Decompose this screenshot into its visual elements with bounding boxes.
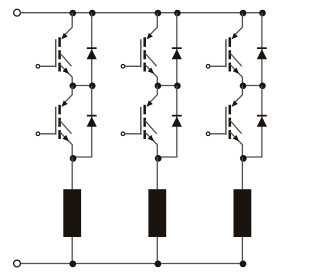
junction: top bus / Q3 collector: [155, 10, 162, 17]
igbt Q5 collector arrowhead: [232, 33, 238, 40]
igbt Q1 emitter arrowhead: [63, 68, 69, 74]
junction: top bus / diode D1 cathode: [89, 10, 96, 17]
diode D4 (freewheeling, cathode up): [172, 115, 182, 127]
wire: lower node to resistor R3: [241, 157, 243, 189]
junction: top bus / diode D3 cathode: [174, 10, 181, 17]
wire: resistor R2 to bottom bus: [156, 237, 158, 264]
igbt Q5 collector wire: [233, 13, 242, 37]
wire: diode D3 branch: [176, 13, 178, 86]
igbt Q5 gate terminal circle: [206, 65, 210, 69]
igbt Q4 emitter wire: [145, 132, 157, 157]
wire: phase B midpoint link: [157, 85, 177, 87]
junction: leg C lower node: [240, 155, 247, 162]
igbt Q3 gate terminal circle: [121, 65, 125, 69]
igbt Q4 emitter arrowhead: [148, 135, 154, 141]
junction: leg B lower node: [155, 155, 162, 162]
igbt Q4 collector arrowhead: [147, 100, 153, 107]
igbt Q6: [226, 105, 242, 139]
diode D2 (freewheeling, cathode up): [87, 115, 97, 127]
igbt Q2 gate terminal circle: [36, 132, 40, 136]
igbt Q5 emitter arrowhead: [233, 68, 239, 74]
igbt Q2 gate lead: [40, 133, 56, 135]
diode D3 (freewheeling, cathode up): [172, 47, 182, 59]
junction: phase B node at diode branch: [174, 83, 181, 90]
wire: resistor R1 to bottom bus: [71, 237, 73, 264]
igbt Q1 collector wire: [63, 13, 72, 37]
igbt Q6 emitter wire: [230, 132, 242, 157]
diode D6 (freewheeling, cathode up): [257, 115, 267, 127]
igbt Q6 collector arrowhead: [232, 100, 238, 107]
igbt Q2 emitter arrowhead: [63, 135, 69, 141]
wire: diode D6 branch: [242, 86, 262, 158]
igbt Q4: [141, 105, 157, 139]
wire: diode D1 branch: [91, 13, 93, 86]
junction: bottom bus / resistor R2: [155, 261, 162, 268]
igbt Q5 emitter wire: [230, 65, 242, 86]
igbt Q5 gate lead: [210, 65, 226, 67]
junction: phase A node at diode branch: [89, 83, 96, 90]
igbt Q3 collector arrowhead: [147, 33, 153, 40]
junction: bottom bus / resistor R1: [69, 261, 76, 268]
junction: bottom bus / resistor R3: [240, 261, 247, 268]
igbt Q2: [56, 105, 72, 139]
resistor R1 (load): [63, 189, 81, 237]
junction: phase B node at Q3 emitter: [155, 83, 162, 90]
igbt Q1 gate lead: [40, 65, 56, 67]
igbt Q1: [56, 37, 72, 71]
junction: leg A lower node: [70, 155, 77, 162]
igbt Q6 gate lead: [210, 133, 226, 135]
junction: phase C node at Q5 emitter: [240, 83, 247, 90]
igbt Q6 gate terminal circle: [206, 132, 210, 136]
igbt Q3 collector wire: [148, 13, 157, 37]
igbt Q6 emitter arrowhead: [233, 135, 239, 141]
igbt Q1 gate terminal circle: [36, 65, 40, 69]
junction: phase A node at Q1 emitter: [70, 83, 77, 90]
wire: phase C midpoint link: [242, 85, 262, 87]
igbt Q3 emitter arrowhead: [148, 68, 154, 74]
igbt Q2 collector arrowhead: [61, 100, 67, 107]
wire: resistor R3 to bottom bus: [241, 237, 243, 264]
wire: diode D4 branch: [157, 86, 177, 158]
igbt Q3 emitter wire: [145, 65, 157, 86]
junction: top bus / Q5 collector: [240, 10, 247, 17]
igbt Q3 gate lead: [125, 65, 141, 67]
junction: phase C node at diode branch: [259, 83, 266, 90]
wire: diode D5 branch: [261, 13, 263, 86]
wire: phase A midpoint link: [72, 85, 92, 87]
terminal: DC+ input: [14, 9, 21, 16]
igbt Q1 collector arrowhead: [61, 33, 67, 40]
igbt Q2 collector wire: [63, 86, 72, 104]
wire: lower node to resistor R2: [156, 157, 158, 189]
wire: top DC bus: [20, 12, 262, 14]
igbt Q3: [141, 37, 157, 71]
igbt Q4 gate lead: [125, 133, 141, 135]
diode D5 (freewheeling, cathode up): [257, 47, 267, 59]
diode D1 (freewheeling, cathode up): [87, 47, 97, 59]
igbt Q4 gate terminal circle: [121, 132, 125, 136]
igbt Q4 collector wire: [148, 86, 157, 104]
igbt Q6 collector wire: [233, 86, 242, 104]
junction: top bus / Q1 collector: [70, 10, 77, 17]
wire: diode D2 branch: [72, 86, 92, 158]
terminal: DC- / neutral return: [14, 260, 21, 267]
resistor R2 (load): [148, 189, 166, 237]
wire: bottom return bus: [21, 263, 243, 265]
junction: top bus / diode D5 cathode: [259, 10, 266, 17]
igbt Q5: [226, 37, 242, 71]
resistor R3 (load): [234, 189, 252, 237]
wire: lower node to resistor R1: [71, 157, 73, 189]
igbt Q1 emitter wire: [60, 65, 72, 86]
igbt Q2 emitter wire: [60, 132, 72, 157]
